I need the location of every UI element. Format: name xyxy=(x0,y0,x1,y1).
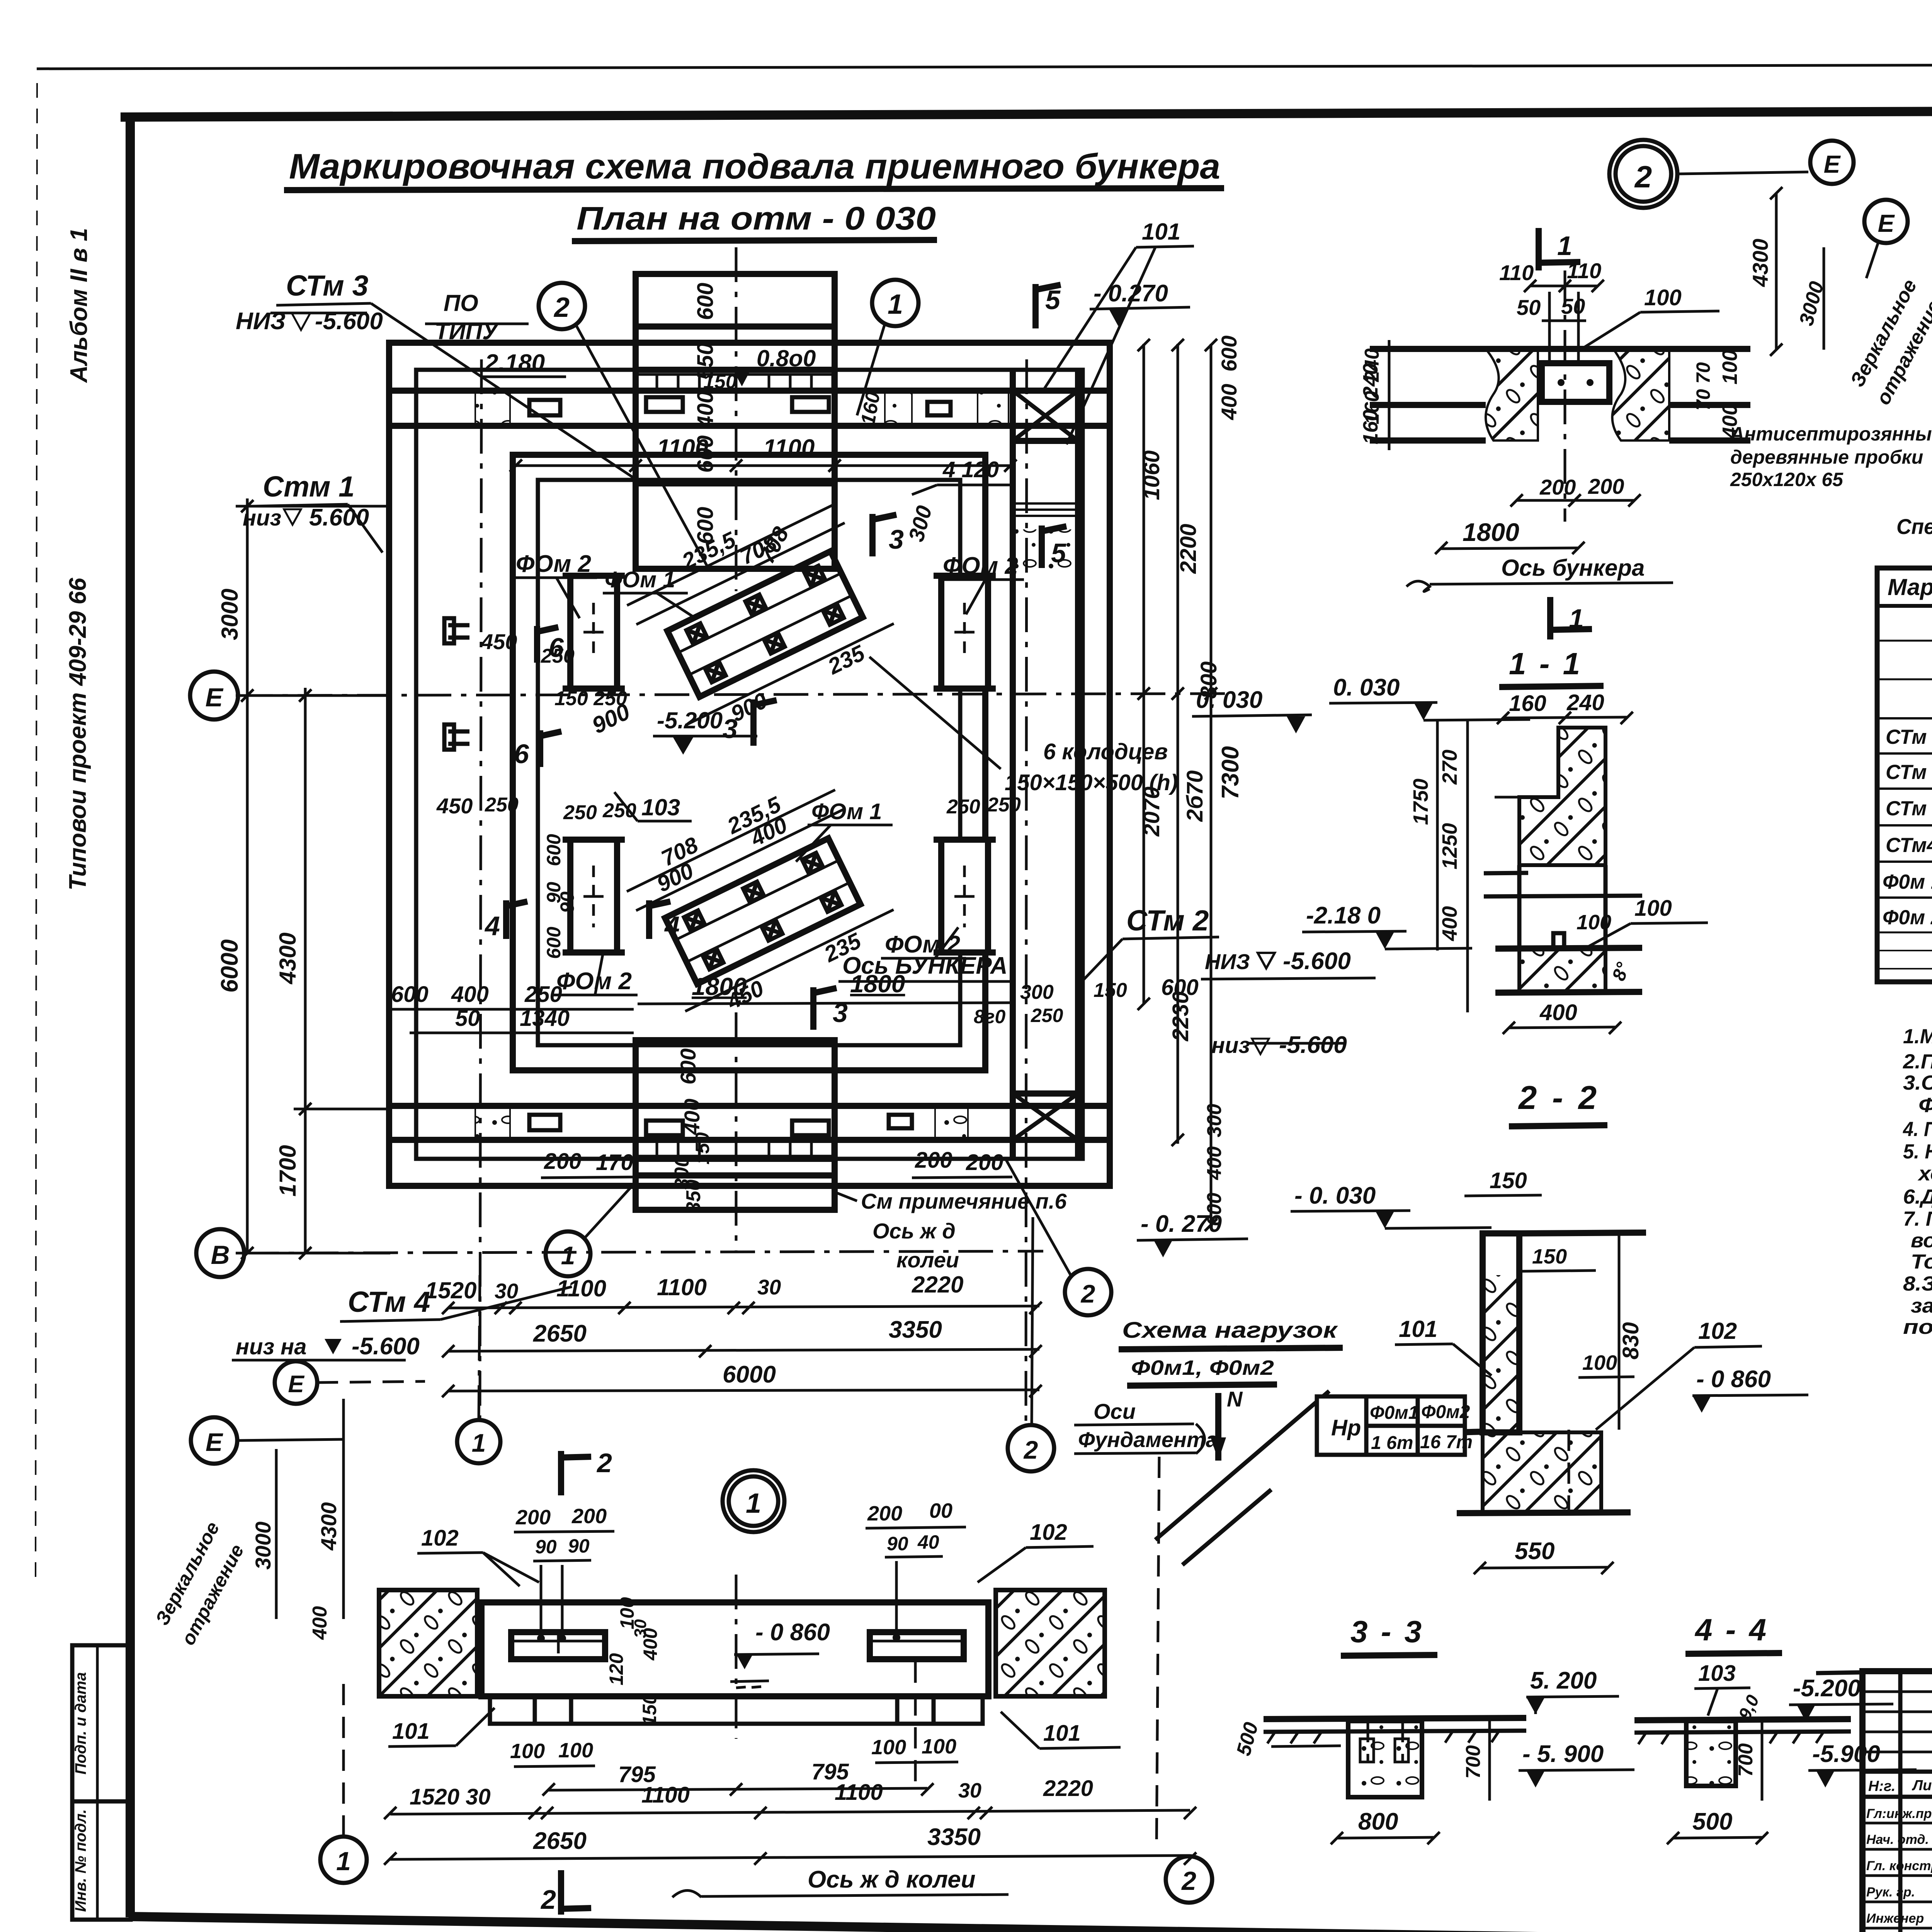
svg-text:30: 30 xyxy=(495,1279,519,1303)
plan axis 1 vertical dash-dot xyxy=(480,359,481,1420)
svg-text:101: 101 xyxy=(1399,1316,1437,1342)
svg-text:Тольщину пола принять 1ʔ0мм: Тольщину пола принять 1ʔ0мм из БЕТОНА МА… xyxy=(1911,1250,1932,1273)
step line xyxy=(1495,796,1528,799)
svg-text:100: 100 xyxy=(558,1739,593,1762)
svg-text:400: 400 xyxy=(680,1099,704,1135)
svg-text:2070: 2070 xyxy=(1139,786,1164,837)
svg-text:E: E xyxy=(206,1428,223,1456)
svg-text:600: 600 xyxy=(391,982,429,1007)
detail hatch right xyxy=(1612,349,1670,440)
anchor stub on foundation xyxy=(1553,933,1564,949)
svg-text:B: B xyxy=(211,1240,230,1270)
svg-text:4 120: 4 120 xyxy=(942,457,999,482)
foundation FOm2 rect upper-right xyxy=(934,576,996,689)
svg-text:2: 2 xyxy=(553,292,570,323)
svg-text:Ф0м 2: Ф0м 2 xyxy=(1883,906,1932,929)
svg-text:Фундамента: Фундамента xyxy=(1078,1427,1218,1452)
svg-text:100: 100 xyxy=(1634,896,1672,921)
svg-text:250: 250 xyxy=(1031,1005,1063,1026)
dimension tick marks xyxy=(241,187,1932,1865)
svg-text:3 - 3: 3 - 3 xyxy=(1350,1614,1424,1649)
svg-text:1800: 1800 xyxy=(692,973,747,1000)
detail axis circle 2 double xyxy=(1609,140,1677,208)
svg-text:СТм 2: СТм 2 xyxy=(1126,904,1209,937)
small plate bottom wall right2 xyxy=(889,1115,912,1128)
svg-text:400: 400 xyxy=(639,1628,661,1661)
svg-text:Ось ж д колеи: Ось ж д колеи xyxy=(808,1866,976,1893)
svg-text:Инв. № подл.: Инв. № подл. xyxy=(72,1809,89,1912)
svg-text:2220: 2220 xyxy=(912,1272,963,1298)
section flag 2 bottom xyxy=(561,1870,591,1915)
svg-text:E: E xyxy=(1824,150,1841,178)
X-box top right corridor xyxy=(1013,391,1078,441)
axis circle 2 top xyxy=(539,283,585,329)
svg-text:700: 700 xyxy=(1462,1745,1485,1779)
diagonal axis line xyxy=(1155,1391,1329,1540)
svg-text:Ф0м1, Ф0м2: Ф0м1, Ф0м2 xyxy=(1131,1356,1274,1379)
axis circle B left xyxy=(196,1229,244,1277)
inner room wall inner face xyxy=(538,480,960,1045)
svg-text:150: 150 xyxy=(692,1132,713,1165)
rotated foundation FOm1 upper xyxy=(616,481,905,747)
left wall niche lower dashes xyxy=(448,730,479,734)
svg-text:90: 90 xyxy=(887,1533,908,1554)
right hatched wall block xyxy=(996,1590,1105,1696)
svg-text:1100: 1100 xyxy=(657,435,708,461)
svg-text:низ на: низ на xyxy=(236,1334,306,1359)
torn left paper edge dashed xyxy=(36,83,37,1584)
svg-text:Ось бункера: Ось бункера xyxy=(1501,555,1645,581)
small plate top wall right xyxy=(927,402,951,415)
left columns verticals xyxy=(1900,1671,1932,1932)
svg-text:Ф0м 2 включены в специфисаци: Ф0м 2 включены в специфисацию на листе К… xyxy=(1918,1094,1932,1117)
bottom axis circle 2 xyxy=(1008,1425,1054,1471)
ground line 4-4 xyxy=(1634,1719,1851,1720)
bottom portal inner line 1 xyxy=(636,1103,835,1109)
top portal block xyxy=(636,274,835,569)
plate left in band xyxy=(511,1632,605,1659)
frame border bottom thick (slanted scan) xyxy=(130,1917,1863,1932)
svg-text:4: 4 xyxy=(484,911,500,941)
leader to E circle xyxy=(1679,172,1808,174)
svg-text:-5.600: -5.600 xyxy=(1283,948,1351,975)
svg-text:Спецификация элементов к марки: Спецификация элементов к маркировочнои с… xyxy=(1896,514,1932,539)
svg-text:101: 101 xyxy=(392,1719,430,1744)
foundation 3-3 xyxy=(1348,1721,1422,1797)
svg-text:1: 1 xyxy=(888,289,903,320)
section flag 3 upper xyxy=(872,514,896,556)
svg-text:Ф0м 1: Ф0м 1 xyxy=(1883,871,1932,893)
svg-text:См примечяние п.6: См примечяние п.6 xyxy=(861,1189,1067,1213)
svg-text:2: 2 xyxy=(540,1884,556,1915)
svg-text:1800: 1800 xyxy=(850,970,905,998)
svg-text:200: 200 xyxy=(867,1502,902,1525)
svg-text:1520 30: 1520 30 xyxy=(410,1784,491,1810)
svg-text:- 0 860: - 0 860 xyxy=(755,1619,830,1646)
svg-text:100: 100 xyxy=(871,1736,906,1759)
svg-text:240: 240 xyxy=(1359,363,1382,398)
bottom wall band line lower xyxy=(389,1137,1110,1143)
svg-text:110: 110 xyxy=(1499,260,1534,285)
left hatched wall block xyxy=(379,1590,477,1696)
svg-text:70 70: 70 70 xyxy=(1692,362,1714,410)
svg-text:СТм 3: СТм 3 xyxy=(286,269,368,302)
svg-text:200: 200 xyxy=(915,1148,952,1173)
svg-text:2220: 2220 xyxy=(1043,1776,1093,1801)
svg-text:- 0. 270: - 0. 270 xyxy=(1141,1211,1222,1237)
svg-text:Гл. констр.: Гл. констр. xyxy=(1866,1859,1932,1873)
svg-text:200: 200 xyxy=(571,1505,607,1528)
svg-text:Ось ж д: Ось ж д xyxy=(872,1219,956,1243)
leader verticals to plate left xyxy=(540,1565,543,1634)
svg-text:5: 5 xyxy=(1045,285,1061,315)
section flag 5 top xyxy=(1036,284,1061,328)
svg-text:450: 450 xyxy=(436,794,473,818)
svg-text:250: 250 xyxy=(946,796,980,818)
detail axis circle E b xyxy=(1864,200,1908,243)
svg-text:ФОм 1: ФОм 1 xyxy=(605,567,675,592)
svg-text:200: 200 xyxy=(544,1149,582,1174)
svg-text:250х120х 65: 250х120х 65 xyxy=(1730,469,1844,490)
svg-text:низ: низ xyxy=(1211,1033,1250,1058)
top wall band line upper xyxy=(389,388,1110,394)
svg-text:250: 250 xyxy=(602,799,636,822)
svg-text:400: 400 xyxy=(1539,1000,1577,1025)
svg-text:300: 300 xyxy=(1203,1104,1226,1138)
svg-text:270: 270 xyxy=(1438,750,1461,785)
svg-text:16 7т: 16 7т xyxy=(1420,1432,1473,1452)
svg-text:1750: 1750 xyxy=(1409,779,1432,825)
svg-text:101: 101 xyxy=(1043,1721,1081,1746)
svg-text:1: 1 xyxy=(746,1488,761,1519)
svg-text:120: 120 xyxy=(605,1653,627,1685)
svg-text:Подп. и дата: Подп. и дата xyxy=(72,1672,89,1775)
svg-text:Стм 1: Стм 1 xyxy=(263,470,355,503)
svg-text:5.600: 5.600 xyxy=(309,504,369,531)
svg-text:400: 400 xyxy=(309,1606,331,1640)
foundation FOm2 rect lower-left xyxy=(563,840,625,952)
svg-text:Антисептирозянные: Антисептирозянные xyxy=(1730,423,1932,445)
svg-text:ФОм 1: ФОм 1 xyxy=(811,799,882,824)
svg-text:1100: 1100 xyxy=(763,435,815,461)
bottom axis circle 2 xyxy=(1166,1856,1212,1903)
svg-text:0.8о0: 0.8о0 xyxy=(757,345,816,371)
bottom portal anchor plate left xyxy=(646,1121,683,1135)
svg-text:ФОм 2: ФОм 2 xyxy=(516,551,591,577)
svg-text:Нач. отд.: Нач. отд. xyxy=(1866,1832,1929,1847)
svg-text:Н:г.: Н:г. xyxy=(1868,1778,1895,1794)
svg-text:400: 400 xyxy=(1217,384,1241,420)
svg-text:колеи: колеи xyxy=(896,1248,959,1272)
svg-text:1: 1 xyxy=(336,1847,351,1876)
foundation 2-2 xyxy=(1483,1432,1601,1513)
svg-text:Лист: Лист xyxy=(1912,1777,1932,1794)
svg-text:600: 600 xyxy=(693,507,718,544)
svg-text:E: E xyxy=(288,1371,304,1398)
left side vertical dim line B xyxy=(304,688,307,1254)
svg-text:1: 1 xyxy=(1557,231,1572,261)
svg-text:1100: 1100 xyxy=(835,1780,883,1805)
line above title block xyxy=(1816,1672,1862,1673)
section flag 3 lower xyxy=(753,699,777,746)
svg-text:1: 1 xyxy=(472,1429,486,1457)
svg-text:600: 600 xyxy=(543,927,565,959)
svg-text:-5.600: -5.600 xyxy=(315,308,383,335)
bottom portal block xyxy=(636,1040,835,1210)
plan outer wall inner face xyxy=(416,370,1083,1159)
svg-text:600: 600 xyxy=(1217,335,1241,371)
svg-text:100: 100 xyxy=(1582,1351,1617,1374)
svg-text:Рук. гр.: Рук. гр. xyxy=(1866,1885,1915,1900)
svg-text:3: 3 xyxy=(723,714,738,744)
top wall band line lower xyxy=(389,423,1110,429)
svg-text:1060: 1060 xyxy=(1139,450,1164,500)
svg-text:2230: 2230 xyxy=(1168,991,1193,1041)
svg-text:СТм 2: СТм 2 xyxy=(1886,761,1932,784)
svg-text:1100: 1100 xyxy=(556,1276,606,1301)
small plate bottom wall left xyxy=(529,1115,560,1130)
svg-text:250: 250 xyxy=(541,645,575,667)
svg-text:3.Сборочные единицы и расход: 3.Сборочные единицы и расход материалов … xyxy=(1903,1071,1932,1094)
svg-text:пола 70/о проектной проч: пола 70/о проектной прочности. xyxy=(1903,1316,1932,1338)
wall L-shape hatched xyxy=(1519,728,1605,865)
svg-text:2: 2 xyxy=(1634,160,1652,194)
section flag 6 lower xyxy=(540,730,561,767)
svg-text:Схема нагрузок: Схема нагрузок xyxy=(1122,1318,1338,1343)
svg-text:200: 200 xyxy=(1539,475,1576,499)
svg-text:50: 50 xyxy=(1517,295,1541,320)
foundation FOm2 rect upper-left xyxy=(563,576,625,689)
svg-text:1700: 1700 xyxy=(275,1145,301,1196)
svg-text:2 - 2: 2 - 2 xyxy=(1518,1080,1600,1116)
svg-text:0. 030: 0. 030 xyxy=(1333,674,1400,701)
svg-text:E: E xyxy=(1878,209,1895,237)
svg-text:1100: 1100 xyxy=(657,1274,707,1300)
svg-text:- 5. 900: - 5. 900 xyxy=(1522,1741,1604,1767)
svg-text:160: 160 xyxy=(1509,691,1546,716)
bottom axis circle 1 xyxy=(457,1420,500,1463)
bottom portal axis dashed xyxy=(735,1012,738,1252)
svg-text:830: 830 xyxy=(1618,1322,1643,1360)
svg-text:ТИПУ: ТИПУ xyxy=(435,318,500,344)
svg-text:7. Пол является конструктивным: 7. Пол является конструктивным элементом… xyxy=(1903,1207,1932,1230)
svg-text:-5.600: -5.600 xyxy=(352,1333,420,1360)
svg-text:2200: 2200 xyxy=(1176,524,1201,574)
svg-text:90: 90 xyxy=(556,891,578,913)
svg-text:5. Наружные поверхности стен о: 5. Наружные поверхности стен обмазать го… xyxy=(1903,1140,1932,1163)
svg-text:150: 150 xyxy=(703,371,737,393)
svg-text:40: 40 xyxy=(917,1531,939,1553)
svg-text:3350: 3350 xyxy=(927,1824,981,1850)
svg-text:СТм 3: СТм 3 xyxy=(1886,797,1932,820)
svg-text:-5.200: -5.200 xyxy=(1793,1675,1861,1702)
svg-text:6.Деформационные швы между сте: 6.Деформационные швы между стенами подва… xyxy=(1903,1185,1932,1208)
axis circle E lower a xyxy=(275,1361,317,1404)
svg-text:103: 103 xyxy=(641,794,680,820)
axis circle 1 top xyxy=(872,280,918,326)
svg-text:350: 350 xyxy=(682,1180,705,1213)
svg-text:4 - 4: 4 - 4 xyxy=(1694,1612,1769,1647)
svg-text:- 0 860: - 0 860 xyxy=(1696,1366,1771,1393)
svg-text:2: 2 xyxy=(1023,1435,1038,1464)
svg-text:250: 250 xyxy=(524,982,562,1007)
svg-text:200: 200 xyxy=(966,1150,1003,1175)
wall hatch 2-2 xyxy=(1483,1275,1519,1432)
svg-text:100: 100 xyxy=(1718,350,1742,384)
svg-text:90: 90 xyxy=(568,1535,590,1557)
svg-text:800: 800 xyxy=(1196,662,1221,699)
svg-text:110: 110 xyxy=(1567,259,1601,283)
svg-text:-5.200: -5.200 xyxy=(657,707,723,733)
top portal anchor plate left xyxy=(646,397,683,412)
right corridor wall line b xyxy=(1075,370,1081,1159)
dim lines along FOm1 upper xyxy=(636,523,845,624)
700 dim 3-3 xyxy=(1488,1718,1491,1801)
ground hatch ticks xyxy=(1267,1731,1499,1743)
svg-text:600: 600 xyxy=(543,834,565,866)
svg-text:4. Подготовку под стены под: 4. Подготовку под стены подвала выполнит… xyxy=(1903,1118,1932,1141)
corridor hatch blob xyxy=(1014,529,1077,576)
plate right in band xyxy=(870,1632,964,1659)
hatch patch bottom wall left xyxy=(475,1107,510,1139)
section flag 6 upper xyxy=(537,626,558,663)
svg-text:ПО: ПО xyxy=(444,290,478,316)
dim chain left of 1-1 xyxy=(1466,719,1469,1012)
svg-text:1: 1 xyxy=(1569,604,1584,634)
top portal axis dashed xyxy=(735,247,738,591)
corridor hatch strip 1 xyxy=(1014,502,1077,520)
axis circle 1 double lower xyxy=(723,1470,784,1532)
section flag 3 bottom-mid xyxy=(813,987,837,1030)
svg-text:2.Перекрытие подвала приемног: 2.Перекрытие подвала приемного бункера р… xyxy=(1903,1050,1932,1073)
axis circle E lower b xyxy=(191,1417,237,1464)
svg-text:4300: 4300 xyxy=(316,1502,341,1551)
foundation block 1-1 xyxy=(1519,949,1605,993)
top portal inner line 2 xyxy=(636,367,835,373)
bottom dim chain 1 xyxy=(448,1306,1039,1308)
svg-text:2: 2 xyxy=(1181,1866,1196,1896)
svg-text:100: 100 xyxy=(510,1740,545,1763)
bottom dim chain 2 xyxy=(448,1349,1039,1351)
svg-text:6: 6 xyxy=(514,739,529,769)
axis 2 dashed to load scheme xyxy=(1156,1457,1159,1851)
floor line right of wall xyxy=(1519,1233,1646,1233)
foundation 4-4 xyxy=(1686,1721,1736,1786)
svg-text:1 6т: 1 6т xyxy=(1371,1433,1413,1453)
svg-text:Марка: Марка xyxy=(1888,574,1932,600)
svg-text:240: 240 xyxy=(1566,690,1604,715)
3000 dim detail xyxy=(1823,247,1825,350)
svg-text:200: 200 xyxy=(515,1506,551,1529)
svg-text:1250: 1250 xyxy=(1438,823,1461,869)
bottom portal inner line 3 xyxy=(636,1172,835,1179)
floor break lines xyxy=(1484,896,1642,896)
dim lines along FOm1 lower xyxy=(636,809,844,911)
svg-text:90: 90 xyxy=(535,1536,557,1558)
small plate top wall left xyxy=(529,400,560,415)
svg-text:4300: 4300 xyxy=(1748,239,1772,287)
svg-text:150 250: 150 250 xyxy=(554,687,627,710)
svg-text:1: 1 xyxy=(561,1241,575,1270)
svg-text:2: 2 xyxy=(1080,1279,1095,1308)
hatch patch bottom wall right xyxy=(935,1107,968,1139)
svg-text:восприятие горизонтальных нагр: восприятие горизонтальных нагрузок деист… xyxy=(1911,1229,1932,1252)
svg-text:Ф0м1: Ф0м1 xyxy=(1370,1403,1418,1423)
axis circle 1a with leader xyxy=(546,1231,590,1276)
svg-text:160: 160 xyxy=(1359,410,1382,444)
sub band below xyxy=(490,1696,983,1724)
inner room wall outer face xyxy=(513,455,985,1070)
svg-text:1.Мрркировочную схему фундамен: 1.Мрркировочную схему фундаментов и фунд… xyxy=(1903,1025,1932,1048)
svg-text:101: 101 xyxy=(1142,219,1180,245)
svg-text:700: 700 xyxy=(1735,1743,1757,1777)
left mini rows xyxy=(1862,1692,1932,1752)
rotated foundation FOm1 lower xyxy=(616,767,905,1033)
section flag 1 bottom of detail xyxy=(1550,597,1592,639)
top portal inner line 3 xyxy=(636,480,835,486)
detail dims left xyxy=(1388,340,1391,450)
svg-text:00: 00 xyxy=(929,1499,952,1522)
top portal inner line 1 xyxy=(636,323,835,330)
wall strip 2-2 xyxy=(1483,1233,1519,1432)
svg-text:Альбом II в 1: Альбом II в 1 xyxy=(66,228,92,383)
svg-text:103: 103 xyxy=(1698,1661,1736,1686)
svg-text:5: 5 xyxy=(1051,538,1066,568)
svg-text:План на отм - 0 030: План на отм - 0 030 xyxy=(577,200,936,236)
bottom axis circle 1 xyxy=(320,1837,367,1883)
section flag 5 lower xyxy=(1042,526,1066,568)
right axis dashed xyxy=(914,1662,917,1785)
center axis dash-dot xyxy=(735,1575,738,1739)
left side vertical dim line A xyxy=(246,498,249,1254)
svg-text:30: 30 xyxy=(958,1779,981,1802)
foundation FOm2 rect lower-right xyxy=(934,840,996,952)
detail hatch left xyxy=(1486,349,1538,440)
svg-text:СТм 4: СТм 4 xyxy=(348,1286,430,1318)
svg-text:СТм 1: СТм 1 xyxy=(1886,726,1932,748)
hatch patch top wall left xyxy=(475,391,510,425)
svg-text:Гл:инж.пр: Гл:инж.пр xyxy=(1866,1806,1932,1821)
svg-text:400: 400 xyxy=(451,982,489,1007)
spec table grid xyxy=(1877,568,1932,982)
svg-text:550: 550 xyxy=(1515,1538,1554,1565)
svg-text:450: 450 xyxy=(481,629,517,654)
svg-text:N: N xyxy=(1227,1387,1243,1411)
signature rows xyxy=(1862,1823,1932,1928)
detail anchor plate center xyxy=(1542,363,1609,402)
svg-text:600: 600 xyxy=(693,283,718,320)
right corridor wall line a xyxy=(1010,370,1016,1159)
svg-text:3: 3 xyxy=(889,524,904,554)
svg-text:5. 200: 5. 200 xyxy=(1530,1667,1597,1694)
svg-text:холоднои битумнои грунтовк: холоднои битумнои грунтовкЕ. xyxy=(1917,1162,1932,1185)
svg-text:1520: 1520 xyxy=(425,1277,476,1303)
load table xyxy=(1317,1396,1465,1455)
svg-text:-2.18 0: -2.18 0 xyxy=(1306,902,1381,929)
svg-text:100: 100 xyxy=(922,1735,956,1758)
svg-text:4: 4 xyxy=(664,911,680,941)
svg-text:Ф0м2: Ф0м2 xyxy=(1421,1402,1470,1422)
axis circle E left xyxy=(190,672,238,719)
title block outer xyxy=(1862,1671,1932,1932)
leader STm3 to plan xyxy=(371,303,636,479)
detail dims above xyxy=(1530,285,1598,287)
detail wall bottom lines xyxy=(1370,402,1486,408)
svg-text:8г0: 8г0 xyxy=(974,1006,1005,1027)
detail axis circle E a xyxy=(1810,141,1854,184)
section flag 4 mid xyxy=(649,900,670,939)
bottom portal brick strip xyxy=(636,1141,835,1156)
